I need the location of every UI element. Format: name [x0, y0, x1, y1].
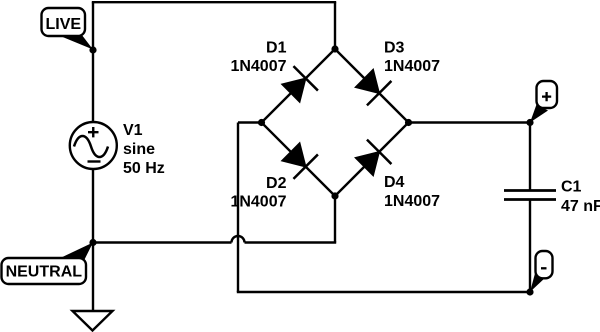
node plus dot	[526, 119, 533, 126]
wire top-left vertical (LIVE node up)	[92, 2, 94, 50]
node LIVE dot	[89, 46, 96, 53]
flag plus tail	[530, 105, 548, 123]
svg-text:D3: D3	[384, 40, 405, 57]
bridge arm bottom-left	[262, 123, 336, 197]
svg-text:D2: D2	[266, 175, 287, 192]
V1 minus sign	[88, 160, 101, 162]
svg-text:C1: C1	[561, 179, 582, 196]
flag LIVE tail	[59, 35, 93, 50]
flag minus bubble	[536, 251, 553, 278]
ground	[92, 243, 94, 312]
wire + node down to capacitor	[529, 123, 531, 191]
wire LIVE node to V1 top	[92, 50, 94, 123]
flag NEUTRAL tail	[55, 243, 93, 261]
wire top rail	[92, 1, 336, 3]
wire capacitor to - node	[529, 200, 531, 293]
svg-text:LIVE: LIVE	[46, 16, 82, 33]
svg-text:47 nF: 47 nF	[561, 198, 600, 215]
node bridge right dot	[405, 119, 412, 126]
voltage source V1 circle	[70, 122, 117, 169]
node minus dot	[526, 288, 533, 295]
bridge arm top-left	[262, 49, 336, 123]
svg-text:50 Hz: 50 Hz	[123, 160, 165, 177]
node bridge top dot	[331, 45, 338, 52]
wire NEUTRAL rail with hop over x=238	[93, 241, 336, 243]
svg-text:1N4007: 1N4007	[230, 193, 286, 210]
node bridge left dot	[258, 119, 265, 126]
node NEUTRAL dot	[89, 239, 96, 246]
node bridge bottom dot	[331, 192, 338, 199]
wire bottom rail	[237, 291, 530, 293]
wire bridge left corner stub	[238, 121, 262, 123]
svg-text:NEUTRAL: NEUTRAL	[6, 264, 83, 281]
svg-text:V1: V1	[123, 122, 143, 139]
svg-text:1N4007: 1N4007	[384, 58, 440, 75]
diode D1	[279, 66, 318, 105]
diode D3	[352, 66, 391, 105]
flag NEUTRAL bubble	[2, 258, 87, 284]
wire bridge bottom corner down to rail	[334, 196, 336, 243]
capacitor C1	[504, 191, 556, 200]
wire hop arc	[232, 236, 245, 243]
svg-text:D4: D4	[384, 174, 405, 191]
diode D4	[352, 140, 391, 179]
V1 plus sign	[88, 127, 99, 137]
svg-text:1N4007: 1N4007	[384, 193, 440, 210]
flag plus sign	[542, 92, 551, 101]
flag LIVE bubble	[42, 8, 86, 36]
flag minus tail	[530, 272, 547, 293]
wire top-right drop to bridge top	[334, 2, 336, 49]
wire bridge right corner to + rail	[409, 121, 531, 123]
svg-text:D1: D1	[266, 40, 287, 57]
V1 sine wave	[74, 136, 108, 157]
bridge arm bottom-right	[335, 123, 409, 197]
svg-text:sine: sine	[123, 141, 155, 158]
wire left vertical x=238	[237, 123, 239, 293]
svg-text:1N4007: 1N4007	[230, 58, 286, 75]
diode D2	[279, 140, 318, 179]
bridge arm top-right	[335, 49, 409, 123]
flag minus sign	[541, 267, 547, 269]
flag plus bubble	[537, 81, 558, 108]
wire V1 bottom to NEUTRAL node	[92, 170, 94, 243]
